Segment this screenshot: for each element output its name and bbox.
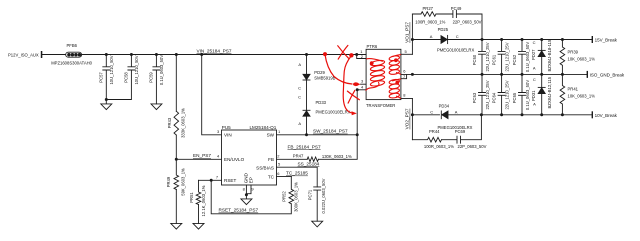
svg-text:SS/BIAS: SS/BIAS: [256, 165, 274, 170]
svg-text:PD33: PD33: [316, 100, 327, 105]
node VO1/rail junction: [411, 38, 414, 41]
resistor PR47: [293, 153, 352, 161]
wire FB to transformer pin 4 riser: [318, 90, 357, 160]
wire +15V rail: [412, 39, 592, 41]
port P12V_ISO_AUX: [8, 51, 42, 58]
svg-text:6: 6: [277, 171, 280, 176]
svg-text:PC69: PC69: [455, 129, 466, 134]
svg-text:C: C: [298, 94, 301, 99]
red polarity dot (pin 1 wire): [349, 53, 353, 57]
svg-text:VIN_25184_PS7: VIN_25184_PS7: [197, 48, 232, 53]
svg-text:A: A: [298, 121, 301, 126]
svg-text:PC58: PC58: [124, 72, 129, 83]
svg-text:SW: SW: [267, 133, 275, 138]
svg-text:MPZ1608S300ATAH0: MPZ1608S300ATAH0: [51, 60, 92, 65]
wire port to bead: [42, 54, 65, 56]
capacitor PC69 (snubber): [442, 115, 487, 149]
resistor PR49: [166, 159, 186, 195]
capacitor PC57: [99, 55, 114, 100]
node pin4 junction: [356, 88, 359, 91]
red arc from pin1 dot to FB riser (arrow): [343, 56, 355, 114]
svg-text:PC57: PC57: [99, 72, 104, 83]
svg-text:PD27: PD27: [531, 49, 536, 60]
node junctions -10V rail: [480, 113, 564, 116]
wire SW pin 1 to riser: [277, 134, 358, 136]
capacitor PC63: [472, 74, 490, 114]
capacitor PC49 (snubber): [436, 6, 482, 39]
svg-text:PR43: PR43: [167, 117, 172, 128]
transformer PTR6: [366, 44, 401, 108]
wire VO2 riser: [411, 99, 413, 140]
ground (input caps): [101, 100, 112, 110]
zener PD31: [531, 74, 552, 114]
wire FB pin 2: [277, 158, 308, 160]
svg-text:3: 3: [361, 78, 364, 83]
capacitor PC60: [472, 40, 490, 75]
svg-text:10U_1210_50V: 10U_1210_50V: [109, 55, 114, 84]
diode PD33: [298, 94, 351, 126]
svg-text:SW_25184_PS7: SW_25184_PS7: [313, 129, 348, 134]
svg-text:PMEG010010ELRX: PMEG010010ELRX: [437, 48, 474, 53]
svg-text:BZX84J-B12,115: BZX84J-B12,115: [547, 76, 552, 108]
break symbol -10V: [592, 111, 618, 118]
svg-text:100R_0603_1%: 100R_0603_1%: [424, 144, 454, 149]
svg-text:P12V_ISO_AUX: P12V_ISO_AUX: [8, 52, 39, 57]
svg-text:PC62: PC62: [512, 54, 517, 65]
resistor PR41: [560, 74, 595, 114]
wire pin 5 stub: [401, 53, 413, 55]
ground (PC59): [151, 104, 162, 110]
svg-text:SS_25184: SS_25184: [298, 161, 320, 166]
wire pin 8 stub: [401, 98, 413, 100]
svg-text:C: C: [533, 40, 536, 45]
svg-text:PC63: PC63: [472, 92, 477, 103]
svg-text:FB_25184_PS7: FB_25184_PS7: [288, 144, 321, 149]
red polarity dot (secondary 1): [394, 58, 398, 62]
svg-text:PC65: PC65: [512, 92, 517, 103]
ground (PC71): [312, 221, 323, 227]
svg-text:100R_0603_1%: 100R_0603_1%: [415, 20, 445, 25]
red X mark 2 (on FB riser arc): [347, 90, 359, 103]
svg-text:PR27: PR27: [423, 6, 434, 11]
red annotation overlay: transformer windings and correction marks: [323, 45, 401, 115]
capacitor PC65: [512, 74, 530, 114]
svg-text:SMB5919B: SMB5919B: [314, 75, 335, 80]
red polarity dot (primary winding): [370, 61, 374, 65]
wire pin 4 stub: [357, 89, 366, 91]
svg-text:PD29: PD29: [314, 70, 325, 75]
svg-text:PMEG10010ELRX: PMEG10010ELRX: [316, 109, 351, 114]
node SW clamp junction: [305, 133, 308, 136]
resistor PR51: [189, 180, 206, 216]
wire GND pin 8/9: [246, 185, 251, 195]
svg-text:PC49: PC49: [451, 6, 462, 11]
svg-text:A: A: [430, 34, 433, 39]
diode PD25: [430, 27, 475, 53]
svg-text:PR47: PR47: [293, 153, 304, 158]
svg-text:333K_0603_1%: 333K_0603_1%: [181, 108, 186, 138]
svg-text:22U_1210_25V: 22U_1210_25V: [485, 42, 490, 71]
capacitor PC64: [491, 74, 509, 114]
svg-text:1: 1: [278, 129, 281, 134]
svg-text:A: A: [455, 109, 458, 114]
svg-text:PD34: PD34: [439, 104, 450, 109]
capacitor PC62: [512, 40, 530, 75]
resistor PR52: [282, 177, 299, 212]
wire TC pin 6: [277, 176, 292, 178]
svg-text:0.1U_0603_50V: 0.1U_0603_50V: [525, 80, 530, 110]
ground (PR49): [171, 223, 182, 229]
winding secondary 1 (red): [389, 55, 401, 75]
svg-text:PFB6: PFB6: [67, 43, 78, 48]
svg-text:10V_Break: 10V_Break: [595, 113, 618, 118]
svg-text:5: 5: [278, 162, 281, 167]
svg-text:10K_0603_1%: 10K_0603_1%: [568, 56, 596, 61]
wire VO1 riser: [411, 14, 413, 54]
svg-text:22P_0603_50V: 22P_0603_50V: [458, 144, 487, 149]
svg-text:PC64: PC64: [491, 92, 496, 103]
node junctions ISO_GND rail: [411, 73, 564, 76]
diode PD34: [430, 104, 472, 131]
wire PR49 to ground: [175, 190, 177, 224]
node junctions on VIN rail: [105, 53, 358, 56]
node EN junction: [175, 158, 178, 161]
node RSET riser junction: [210, 179, 213, 182]
node GND junction: [245, 193, 248, 196]
wire RSET_25184_PS7 rail: [211, 180, 291, 214]
winding primary (red, hand-drawn): [366, 59, 385, 91]
wire VIN rail: [82, 54, 357, 56]
wire PR51 to ground: [198, 205, 200, 224]
svg-text:PD25: PD25: [438, 27, 449, 32]
wire ISO_GND rail: [412, 73, 587, 75]
node VO2/rail junction: [411, 113, 414, 116]
capacitor PC71: [308, 178, 326, 221]
svg-text:A: A: [533, 66, 536, 71]
wire VIN rail down to pin 3: [202, 55, 222, 135]
resistor PR43: [167, 108, 186, 138]
svg-text:PTR6: PTR6: [367, 44, 378, 49]
red polarity dot (VIN rail): [323, 52, 327, 56]
svg-text:RSET_25184_PS7: RSET_25184_PS7: [219, 208, 259, 213]
red polarity dot (secondary 2): [395, 81, 399, 85]
svg-text:59K_0603_1%: 59K_0603_1%: [181, 168, 186, 196]
svg-text:10U_1210_50V: 10U_1210_50V: [134, 55, 139, 84]
svg-text:22P_0603_50V: 22P_0603_50V: [453, 20, 482, 25]
svg-text:15V_Break: 15V_Break: [595, 38, 618, 43]
svg-text:RSET: RSET: [224, 178, 236, 183]
svg-text:4: 4: [361, 84, 364, 89]
break symbol +15V: [592, 36, 618, 43]
svg-text:0.022U_0603_50V: 0.022U_0603_50V: [321, 178, 326, 213]
wire pins 6,7: [401, 74, 413, 78]
zener PD27: [531, 39, 552, 74]
svg-text:LM25184-Q1: LM25184-Q1: [249, 125, 276, 130]
svg-text:PC60: PC60: [472, 54, 477, 65]
svg-text:10K_0603_1%: 10K_0603_1%: [568, 93, 596, 98]
svg-text:2: 2: [277, 153, 280, 158]
wire pin 3 stub: [361, 83, 367, 85]
svg-text:BZX84J-B18-115: BZX84J-B18-115: [547, 39, 552, 71]
svg-text:PR51: PR51: [189, 192, 194, 203]
svg-text:C: C: [430, 109, 433, 114]
wire VIN rail to PR43: [175, 55, 177, 112]
svg-text:0.1U_0603_50V: 0.1U_0603_50V: [525, 42, 530, 72]
svg-text:22U_1210_25V: 22U_1210_25V: [485, 80, 490, 109]
wire SS/BIAS pin 5: [277, 167, 318, 187]
diode PD29: [298, 62, 336, 91]
svg-text:5: 5: [405, 49, 408, 54]
capacitor PC58: [106, 55, 139, 100]
red X mark 1 (on VIN wire): [338, 45, 349, 59]
svg-text:TC_25185: TC_25185: [286, 171, 308, 176]
svg-text:C: C: [533, 77, 536, 82]
svg-text:130K_0603_1%: 130K_0603_1%: [322, 154, 352, 159]
resistor PR27 (snubber): [412, 6, 445, 24]
svg-text:PC59: PC59: [149, 72, 154, 83]
svg-text:TC: TC: [268, 175, 275, 180]
svg-text:12.1K_0603_1%: 12.1K_0603_1%: [201, 185, 206, 216]
svg-text:PR49: PR49: [166, 176, 171, 187]
winding secondary 2 (red): [389, 79, 401, 99]
svg-text:PR41: PR41: [568, 86, 579, 91]
svg-text:PC61: PC61: [491, 54, 496, 65]
red arc from rail dot to pin 3 (arrow): [325, 55, 352, 85]
wire PR43 to EN node: [175, 135, 177, 159]
svg-text:PC71: PC71: [308, 189, 313, 200]
capacitor PC59: [149, 55, 164, 104]
resistor PR39: [560, 40, 595, 75]
ground (PR51): [193, 223, 204, 229]
svg-text:PR52: PR52: [282, 191, 287, 202]
svg-text:22U_1210_25V: 22U_1210_25V: [504, 80, 509, 109]
resistor PR44 (snubber): [412, 129, 454, 149]
wire clamp column: [306, 55, 308, 135]
junction PC57/PC58 ground node: [105, 98, 108, 101]
svg-text:PU5: PU5: [222, 125, 231, 130]
node junctions +15V rail: [481, 38, 564, 41]
break symbol ISO_GND: [587, 71, 625, 78]
svg-text:EP: EP: [249, 177, 254, 183]
wire pins 1,2: [357, 55, 366, 59]
svg-text:7: 7: [216, 174, 219, 179]
svg-text:ISO_GND_Break: ISO_GND_Break: [590, 73, 625, 78]
wire -10V rail: [412, 114, 592, 116]
svg-text:C: C: [456, 34, 459, 39]
svg-text:9: 9: [251, 187, 254, 192]
svg-text:300K_0603_1%: 300K_0603_1%: [294, 182, 299, 212]
svg-text:PD31: PD31: [531, 90, 536, 101]
svg-text:A: A: [298, 62, 301, 67]
capacitor PC61: [491, 40, 509, 75]
svg-text:C: C: [298, 86, 301, 91]
svg-text:22U_1210_25V: 22U_1210_25V: [504, 42, 509, 71]
wire EN_PS7 to pin 4: [176, 158, 221, 160]
svg-text:8: 8: [403, 93, 406, 98]
svg-text:8: 8: [243, 187, 246, 192]
wire RSET pin 7: [199, 179, 222, 181]
ferrite bead PFB6: [51, 43, 92, 65]
svg-text:A: A: [533, 101, 536, 106]
svg-text:VO1_PS7: VO1_PS7: [405, 22, 410, 43]
svg-text:EN/UVLO: EN/UVLO: [224, 157, 245, 162]
ground (IC GND): [241, 195, 252, 205]
svg-text:3: 3: [217, 129, 220, 134]
node SW/riser junction: [356, 133, 359, 136]
svg-text:PR44: PR44: [429, 129, 440, 134]
svg-text:FB: FB: [268, 157, 274, 162]
svg-text:TRANSFOMER: TRANSFOMER: [366, 103, 395, 108]
svg-text:4: 4: [217, 153, 220, 158]
svg-text:PR39: PR39: [568, 49, 579, 54]
op-amp/regulator IC PU5 LM25184-Q1: [216, 125, 281, 192]
svg-text:VO2_PS7: VO2_PS7: [405, 108, 410, 129]
svg-text:0.1U_0603_50V: 0.1U_0603_50V: [159, 55, 164, 85]
svg-text:EN_PS7: EN_PS7: [193, 153, 211, 158]
svg-text:VIN: VIN: [224, 133, 232, 138]
